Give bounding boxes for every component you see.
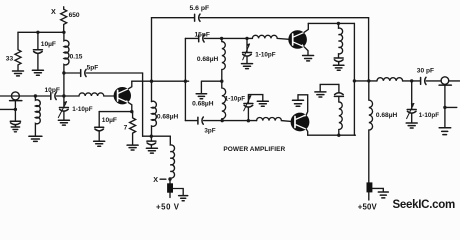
wire main vertical top <box>151 18 153 102</box>
wire stub right of J2 <box>445 106 457 108</box>
capacitor 10uF (bias) <box>37 32 39 49</box>
svg-text:1-10pF: 1-10pF <box>255 52 275 59</box>
ground (below output trimmer) <box>406 122 417 124</box>
svg-text:15pF: 15pF <box>195 31 210 38</box>
trimmer capacitor 1-10pF (lower) <box>247 107 249 121</box>
svg-text:0.68µH: 0.68µH <box>157 114 179 121</box>
svg-text:1-10pF: 1-10pF <box>72 106 92 113</box>
wire shunt ground segment <box>201 81 221 93</box>
svg-text:SeekIC.com: SeekIC.com <box>392 197 455 211</box>
wire 15pF arm <box>185 37 198 39</box>
wire Q2 emitter <box>304 47 308 55</box>
node lower trimmer tap <box>247 119 250 122</box>
node bias <box>62 31 65 34</box>
node A <box>62 94 65 97</box>
wire feedthrough ground elbow <box>173 189 183 196</box>
ground (below X1 cap) <box>146 147 157 149</box>
ground (below input trimmer) <box>58 119 69 121</box>
connector J1 (input) <box>11 92 19 100</box>
svg-text:33: 33 <box>6 55 14 62</box>
capacitor 5.6pF <box>194 14 196 21</box>
wire Q3 collector <box>306 129 307 135</box>
transistor Q2 <box>288 30 307 49</box>
wire Q2 collector <box>304 23 308 32</box>
capacitor lower trap <box>334 95 343 97</box>
wire input line left <box>0 95 50 97</box>
wire Q3 collector line <box>308 134 356 136</box>
node upper trimmer tap <box>245 37 248 40</box>
svg-text:3pF: 3pF <box>204 127 215 134</box>
resistor 650 <box>61 7 67 33</box>
node collector / splitter vertical <box>184 80 187 83</box>
svg-text:10µF: 10µF <box>102 117 117 124</box>
inductor 0.15 <box>64 32 69 71</box>
svg-text:0.68µH: 0.68µH <box>376 112 398 119</box>
ground (below J2) <box>439 127 451 129</box>
node Q1 emitter <box>130 110 133 113</box>
wire 10pF to node A <box>57 95 64 97</box>
inductor 0.68uH upper shunt <box>222 38 226 81</box>
wire 5.6pF line <box>152 17 194 19</box>
wire lower trap ground elbow <box>320 84 339 91</box>
node below J2 <box>443 106 446 109</box>
capacitor input bypass <box>10 120 20 122</box>
node output trimmer tap <box>410 79 413 82</box>
inductor 0.68uH lower shunt <box>222 81 226 120</box>
node lower trap tap <box>337 134 340 137</box>
wire upper arm <box>204 37 252 39</box>
ground (below 7) <box>127 144 138 146</box>
ground (Q3 emitter) <box>293 99 304 101</box>
capacitor bypass X1 <box>150 136 152 141</box>
wire 3pF arm <box>185 120 197 122</box>
svg-text:0.68µH: 0.68µH <box>197 56 219 63</box>
wire splitter vertical <box>184 38 186 120</box>
wire 5pF drop vertical <box>142 73 144 136</box>
wire 5pF branch <box>64 72 80 74</box>
wire feedthrough ground elbow right <box>372 188 383 191</box>
svg-text:5pF: 5pF <box>87 65 99 72</box>
svg-text:5.6 pF: 5.6 pF <box>190 5 210 12</box>
ground (below input cap) <box>11 126 19 128</box>
svg-text:X: X <box>153 175 158 184</box>
node output tap <box>353 79 356 82</box>
inductor output series <box>377 78 420 81</box>
ground (below emitter 10uF) <box>94 140 105 142</box>
svg-text:+50V: +50V <box>358 202 378 211</box>
wire bias line <box>18 31 64 33</box>
inductor lower trap <box>339 97 342 136</box>
wire 5pF to drop <box>86 72 142 74</box>
trimmer capacitor 1-10pF (output) <box>411 81 413 109</box>
wire collector line <box>132 80 189 82</box>
capacitor 3pF <box>197 117 199 124</box>
svg-text:0.68µH: 0.68µH <box>192 101 214 108</box>
wire stub left of J1 <box>0 108 15 110</box>
node 5pF tap <box>62 71 65 74</box>
wire combining bus <box>353 23 355 135</box>
wire node A vertical <box>63 72 65 108</box>
wire Q2 collector line <box>308 22 354 24</box>
resistor 33 <box>15 32 21 70</box>
ground (middle shunt) <box>196 93 206 95</box>
wire output line <box>354 80 377 82</box>
feedthrough capacitor (left +50V) <box>169 179 171 197</box>
capacitor 30pF <box>420 78 422 85</box>
node upper L tap <box>220 37 223 40</box>
node X1 <box>150 135 153 138</box>
inductor upper trap <box>339 23 343 57</box>
inductor 0.68uH RFC1 <box>152 101 157 136</box>
svg-text:10pF: 10pF <box>45 87 60 94</box>
ground (below 33) <box>13 70 24 72</box>
wire Q1 emitter <box>128 103 131 112</box>
svg-text:7: 7 <box>124 124 128 131</box>
wire X1 line <box>143 135 171 137</box>
wire 5.6pF drop <box>368 18 370 81</box>
ground (Q2 emitter) <box>303 55 314 57</box>
svg-text:X: X <box>51 7 56 16</box>
ground (right feedthrough) <box>378 191 388 193</box>
capacitor 10pF (series input) <box>50 93 52 100</box>
capacitor 10uF (emitter) <box>98 112 100 127</box>
wire Q3 emitter <box>298 95 308 115</box>
capacitor upper trap <box>334 57 343 59</box>
inductor RFC2 <box>170 136 174 179</box>
node X feed <box>168 177 171 180</box>
svg-text:650: 650 <box>69 12 80 19</box>
node shunt ground junction <box>220 80 223 83</box>
transistor Q3 <box>291 113 310 132</box>
capacitor 5pF <box>80 70 82 77</box>
inductor 0.68uH RFC3 <box>369 81 373 200</box>
inductor base Q1 <box>64 93 114 96</box>
ground (lower trimmer via elbow) <box>257 100 268 102</box>
node input junction <box>34 94 37 97</box>
node below J1 <box>14 108 17 111</box>
ground (below 10uF bias) <box>32 69 43 71</box>
wire emitter line <box>99 111 132 113</box>
svg-text:10µF: 10µF <box>41 41 56 48</box>
node lower L tap <box>221 119 224 122</box>
wire Q1 collector <box>128 81 131 89</box>
capacitor 15pF <box>198 35 200 42</box>
inductor base Q2 <box>252 35 289 39</box>
wire 5.6pF line right <box>200 17 368 19</box>
svg-text:30 pF: 30 pF <box>417 68 434 75</box>
connector J2 (output) <box>441 77 449 85</box>
feedthrough capacitor (right +50V) <box>367 182 373 192</box>
resistor 7 <box>130 112 136 145</box>
svg-text:+50 V: +50 V <box>156 202 180 211</box>
svg-text:POWER AMPLIFIER: POWER AMPLIFIER <box>223 146 285 153</box>
svg-text:0.15: 0.15 <box>70 53 83 60</box>
trimmer capacitor 1-10pF (input) <box>59 107 68 109</box>
ground (left feedthrough) <box>179 195 188 197</box>
node 10uF tap <box>36 31 39 34</box>
wire X dash <box>160 178 166 180</box>
ground (lower trap) <box>315 91 326 93</box>
trimmer capacitor 1-10pF (upper) <box>246 38 248 52</box>
wire lower arm <box>204 120 257 122</box>
ground (below input inductor) <box>29 135 42 137</box>
transistor Q1 <box>114 87 131 104</box>
ground (below upper trimmer) <box>242 63 253 65</box>
node feedback / RFC3 <box>367 79 370 82</box>
node collector / main vertical <box>150 80 153 83</box>
wire to output connector <box>426 80 441 82</box>
inductor input shunt <box>35 96 40 136</box>
svg-text:1-10pF: 1-10pF <box>419 112 439 119</box>
svg-text:1-10pF: 1-10pF <box>225 96 245 103</box>
inductor base Q3 <box>257 117 292 121</box>
node upper trap tap <box>337 22 340 25</box>
ground (upper trap) <box>333 64 344 66</box>
